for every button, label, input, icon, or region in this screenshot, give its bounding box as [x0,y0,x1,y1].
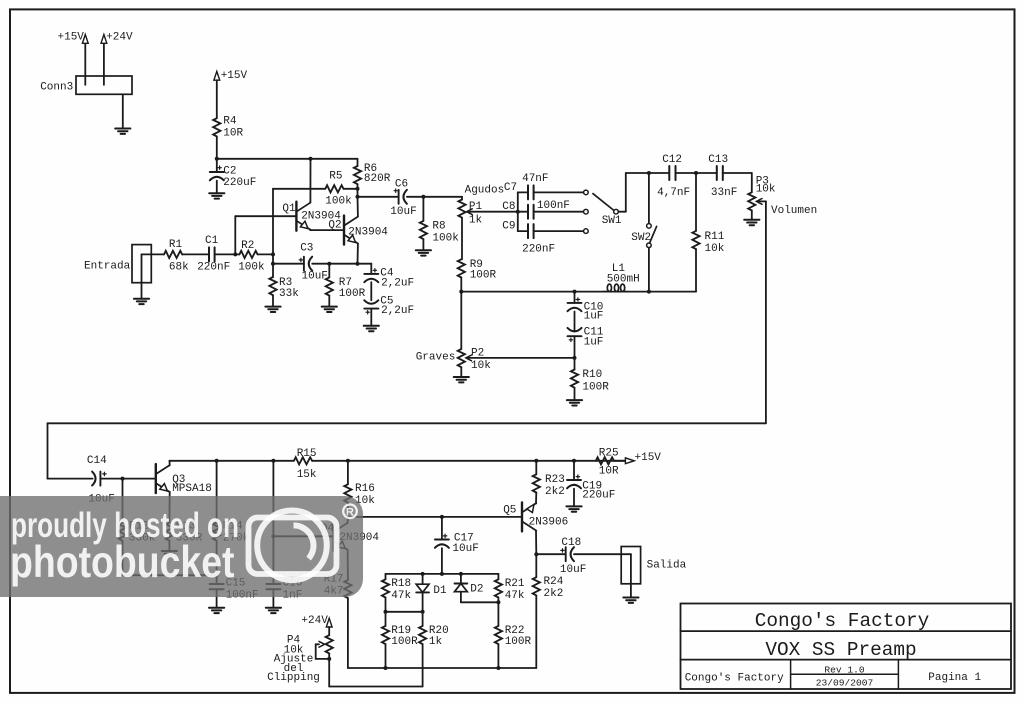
wire C7 right lead [534,191,584,193]
photobucket watermark band [0,496,363,598]
node P4 bottom junction [327,657,331,661]
wire Q3 collector to rail [169,461,171,466]
node R22 bottom junction [496,666,500,670]
wire R7 to ground [328,296,330,307]
node R9/P2 junction [459,290,463,294]
transistor Q1 [296,202,310,231]
capacitor C13 [717,166,723,180]
capacitor C10 [568,292,582,312]
capacitor C4 [364,269,378,283]
resistor R4 [213,118,220,136]
label SW2 [631,232,651,244]
label C13 [708,154,737,199]
capacitor C3 [299,257,312,271]
photobucket camera lens [257,511,327,581]
capacitor C16 [266,584,280,608]
resistor R21 [495,574,502,602]
wire R11 to tone bus [695,249,697,292]
capacitor C2 [210,159,224,193]
wire rail corner to R6 [357,159,359,166]
label R20 [429,625,449,648]
wire R20 to P4 wiper bus [329,644,422,686]
power +24V arrow at Conn3 [101,35,107,85]
wire SW2 riser [648,173,650,224]
resistor R10 [571,358,578,388]
ground at C15 [209,608,224,613]
resistor R15 [294,457,312,464]
wire R19 to bottom bus [385,644,387,668]
label Conn3 [40,81,73,93]
ground at R8 [416,250,431,255]
node C8 open pin [584,209,589,214]
ground at R10 [567,400,582,405]
resistor R24 [533,554,540,595]
wire C18 to Salida [574,553,631,555]
node C16 rail junction [271,459,275,463]
capacitor C7 [528,185,534,199]
label R21 [505,578,525,602]
wire C7 left lead [518,191,528,193]
label SW1 [602,215,622,227]
potentiometer P2 [458,349,472,367]
wire C3 row left [273,263,304,265]
wire R9 to bus [460,278,462,292]
wire C8 left lead [518,211,528,213]
svg-text:photobucket: photobucket [10,538,235,587]
node C7 open pin [584,190,589,195]
wire C8 right lead [534,211,584,213]
wire C13 to P3 [723,173,752,192]
node Q4 base junction [271,534,275,538]
node R8 junction [421,195,425,199]
wire R1 to C1 [182,253,209,255]
label L1 [607,263,640,285]
node R7 top junction [327,262,331,266]
label R14 [223,521,250,545]
node Q2 emitter/C3 junction [356,262,360,266]
node Q1 collector junction on rail [309,157,313,161]
wire C3 row to C4 [358,264,372,274]
label Volumen [771,205,817,217]
label Entrada [84,260,131,272]
resistor R8 [420,197,427,239]
wire Salida pin to ground [630,554,632,597]
wire R18 to D1 node [386,598,423,612]
ground at Salida [623,598,638,603]
wire feedback vertical at R3 [272,189,274,277]
potentiometer P1 [458,200,472,218]
label R11 [705,231,725,255]
label C5 [380,296,414,317]
label R17 [324,574,344,598]
registered trademark symbol [343,505,357,519]
label Salida [647,560,687,572]
label D1 [433,585,447,597]
node R11 top junction [694,171,698,175]
wire C9 right lead [534,230,584,232]
wire R24 to bottom bus [535,595,537,668]
resistor R13 [166,523,173,541]
wire top supply rail [217,158,358,160]
ground at Conn3 [115,129,130,134]
label C7 [504,173,549,194]
wire P2 wiper to R10 node [467,357,575,359]
label P3 [756,176,776,196]
transistor Q2 [344,216,358,245]
node C10 junction [573,290,577,294]
capacitor C9 [528,224,534,238]
ground at R7 [322,307,337,312]
svg-text:R: R [346,506,354,518]
wire R14 to bias node [216,541,218,576]
node C6 wire junction [356,195,360,199]
wire cap stack vertical [517,192,519,231]
wire C19 to ground [573,489,575,507]
node R12 junction [121,477,125,481]
node C1/R2 junction [233,252,237,256]
switch SW2 [647,224,657,248]
wire R10 to ground [574,388,576,400]
wire Q2 collector riser [357,189,359,217]
wire tone bus right [625,291,696,293]
resistor R9 [458,259,465,277]
node bias node junction [215,573,219,577]
power +24V arrow at P4 [326,618,332,635]
ground at C5 [364,326,379,331]
wire Q4 collector [347,517,349,523]
diode D2 [455,574,468,602]
node R5/R6 junction [356,187,360,191]
wire R12 to bias node [123,541,217,576]
node C9 open pin [584,229,589,234]
resistor R12 [119,479,126,541]
wire C18 left [536,553,565,555]
wire C4 to C5 [370,282,372,300]
capacitor C15 [210,575,224,608]
capacitor C5 [364,300,378,314]
ground at C16 [266,608,281,613]
wire R13 to ground [168,541,170,551]
label R18 [391,578,411,602]
resistor R3 [269,277,276,295]
ground at R3 [265,307,280,312]
label R5 [325,170,352,207]
wire P2 bottom to ground [460,367,462,377]
power +15V arrow at R4 [214,71,220,118]
wire R25 to arrow [614,460,625,462]
wire R5 right [344,188,358,190]
label R22 [505,625,532,648]
wire R3 to ground [272,295,274,306]
label R25 [599,448,619,478]
node C18 junction [534,552,538,556]
label +15V at R25 [635,452,662,464]
resistor R7 [326,264,333,296]
node R23 rail junction [534,459,538,463]
label C18 [560,537,586,576]
wire junction riser to Q1 base [235,216,296,254]
title text Congo's Factory [755,610,930,632]
label +24V at Conn3 [106,31,133,43]
node R16 rail junction [346,459,350,463]
ground at C2 [209,193,224,198]
wire P1 top [461,197,463,200]
diode D1 [416,574,429,593]
label P2 [471,347,491,372]
resistor R11 [692,173,699,249]
wire Q4 base wire [273,535,333,537]
label C3 [300,243,328,283]
wire R6 to junction [357,184,359,189]
node C17 top junction [440,515,444,519]
label Q5 [503,504,568,528]
label C16 [283,577,303,601]
label R13 [176,521,203,545]
label R12 [129,521,156,545]
resistor R18 [382,574,389,598]
wire P4 to R20 bus [328,653,330,686]
photobucket camera icon body [249,505,357,581]
resistor R23 [533,461,540,493]
wire D2 to R21 bottom [461,601,499,603]
label R1 [169,239,189,274]
resistor R14 [213,461,220,541]
wire SW1 to top wire [618,173,626,212]
label +15V at Conn3 [58,31,85,43]
title Rev 1.0 [824,664,865,675]
label C14 [87,455,115,505]
node C19 rail junction [572,459,576,463]
title block frame [681,604,1012,690]
capacitor C8 [528,205,534,219]
node stack middle junction [516,210,520,214]
wire bus to P2 [460,292,462,349]
resistor R6 [354,166,361,184]
resistor R16 [344,461,351,503]
photobucket camera lens highlight [294,525,314,558]
label C2 [223,166,256,190]
wire C9 left lead [518,230,528,232]
potentiometer P4 [319,635,333,653]
label C4 [380,267,414,289]
label R9 [470,259,497,281]
wire Q1 collector [309,159,311,203]
capacitor C12 [669,166,675,180]
capacitor C19 [567,461,581,489]
resistor R19 [382,612,389,644]
label C6 [390,179,416,218]
wire C11 to junction [574,336,576,358]
switch SW1 [593,194,618,214]
node C3 tap junction [271,262,275,266]
transistor Q3 [156,464,170,493]
transistor Q4 [334,522,348,551]
wire diode bus [386,573,499,575]
resistor R2 [239,251,257,258]
wire Q5 collector down [535,531,537,554]
wire C17 to diode bus [441,548,443,574]
wire C16 riser [272,461,274,584]
node D2 top junction [459,572,463,576]
connector Conn3 box [76,76,132,94]
node Q4 collector junction [346,515,350,519]
wire R17 to bottom bus [348,598,536,668]
label C8 [502,200,570,213]
resistor R17 [344,580,351,598]
label P4 block [267,635,320,685]
label C15 [226,577,259,601]
title date 23/09/2007 [816,677,874,688]
wire C10 to C11 [574,312,576,332]
resistor R5 [325,185,343,192]
node R14 rail junction [215,459,219,463]
label R15 [297,448,317,481]
wire R5 left [273,188,325,190]
wire C1 to R2 [215,253,240,255]
label Q3 [172,474,212,495]
label R4 [223,115,243,139]
capacitor C1 [209,247,215,261]
label C9 [502,220,555,255]
label R16 [355,483,375,507]
label R7 [339,277,366,300]
capacitor C11 [568,328,582,342]
inductor L1 [604,284,627,292]
wire P4 wiper to bottom [316,644,330,659]
wire Q4 emitter to R17 [347,550,349,580]
connector Salida box [621,547,640,584]
wire Q2 emitter drop [357,244,359,264]
label R6 [364,163,391,185]
wire C6 row left [358,196,399,198]
node R19 bottom junction [384,666,388,670]
label C11 [584,327,604,349]
label R19 [391,625,418,648]
label R10 [582,369,609,393]
label C17 [452,533,478,556]
label R2 [238,240,265,274]
ground at Entrada [134,299,149,304]
capacitor C18 [561,547,574,561]
label R3 [279,277,299,300]
label C19 [582,481,615,502]
label R8 [432,221,459,245]
wire R16 to Q4 collector [347,503,349,517]
wire R8 to ground [422,239,424,250]
resistor R22 [495,602,502,644]
node R4/C2/rail junction [215,157,219,161]
node C17 bottom junction [440,572,444,576]
transistor Q5 (PNP) [522,502,536,531]
label C1 [197,235,230,274]
label C10 [584,301,604,322]
wire R22 to bottom bus [497,644,499,668]
wire Q4 collector to Q5 base [348,516,522,518]
wire P1 bottom to R9 [461,218,463,260]
wire Q3 emitter to R13 [168,492,170,523]
capacitor C14 [92,472,106,486]
node C11/R10 junction [573,356,577,360]
wire C5 to ground [370,309,372,326]
title Pagina 1 [928,672,981,684]
label +24V at P4 [301,615,328,627]
node D1 top junction [421,572,425,576]
capacitor C6 [394,189,407,204]
wire top tone rail [626,172,670,174]
wire SW2 to tone bus [648,248,650,292]
wire R4 to rail [216,136,218,158]
ground at R13 [162,551,177,556]
ground at C19 [566,506,581,511]
resistor R1 [164,251,182,258]
label Q1 [282,203,341,223]
wire P1 wiper to cap stack [467,211,518,213]
node SW2 bottom junction [647,290,651,294]
label Q4 [321,523,380,544]
power +15V arrow at R25 [625,458,634,464]
resistor R20 [419,612,426,644]
capacitor C17 [435,517,449,548]
ground at P3 [744,220,759,225]
wire C6 to P1 [407,196,462,198]
label D2 [470,584,483,596]
label C12 [657,154,690,199]
wire Q1 emitter to Q2 base [310,229,344,232]
wire Entrada pin [142,254,165,298]
node D1 bottom junction [421,592,425,613]
wire R2 to R3 node [258,253,273,255]
label P1 [469,201,483,226]
wire Conn3 to ground [122,94,124,128]
wire P3 wiper feedback to lower stage [48,201,766,478]
label R24 [544,576,564,600]
wire C3 to R7 node [312,263,357,265]
potentiometer P3 [748,192,762,210]
label +15V at R4 [221,70,248,82]
title text VOX SS Preamp [765,639,916,661]
wire C14 to Q3 base [100,478,155,480]
wire Q5 emitter to R23 [535,493,537,504]
title small Congo's Factory [685,673,784,685]
wire lower supply rail [170,460,626,462]
power +15V arrow at Conn3 [82,35,88,85]
resistor R25 [596,457,614,464]
wire P3 bottom to ground [751,211,753,220]
wire C12 to C13 [676,172,717,174]
node SW2 top junction [647,171,651,175]
label R23 [545,474,565,498]
node R2/R3 junction [271,252,275,256]
connector Entrada box [132,245,151,283]
wire tone bus left [461,291,606,293]
ground at P2 [454,377,469,382]
label Q2 [328,220,388,239]
label Agudos [465,184,505,196]
node R21 bottom junction [496,600,500,604]
label Graves [416,352,456,364]
node R19 top junction [384,610,388,614]
